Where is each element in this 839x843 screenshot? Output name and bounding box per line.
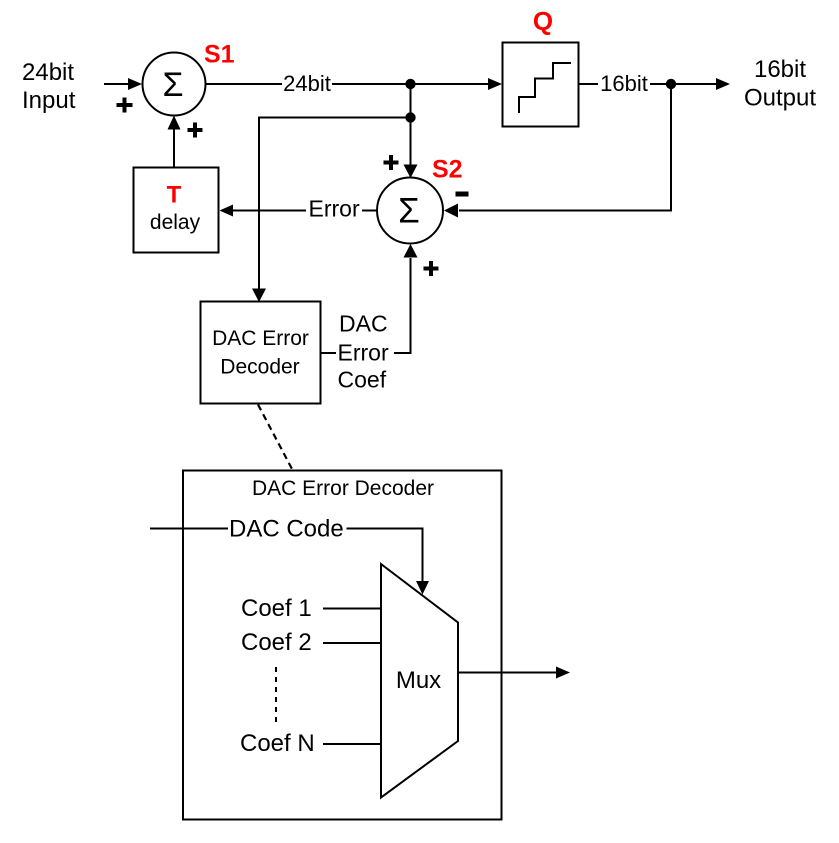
detail box DAC Error Decoder	[183, 471, 502, 820]
svg-text:DAC Error: DAC Error	[212, 327, 309, 350]
svg-text:16bit: 16bit	[600, 71, 648, 96]
junction node B	[405, 112, 415, 122]
svg-text:Coef N: Coef N	[240, 730, 315, 757]
svg-text:Error: Error	[338, 340, 389, 366]
junction node C	[666, 79, 676, 89]
output arrow	[671, 78, 730, 90]
svg-text:DAC Code: DAC Code	[229, 516, 344, 543]
delay box T	[134, 168, 219, 253]
svg-text:Input: Input	[22, 87, 76, 114]
svg-text:Coef 1: Coef 1	[241, 595, 312, 622]
svg-text:Error: Error	[309, 196, 360, 222]
Coef N input	[240, 730, 381, 757]
plus at S1 bottom input	[188, 123, 203, 138]
wire node B left and down to DAC Error Decoder	[252, 118, 411, 303]
wire decoder output to S2 bottom	[321, 244, 418, 353]
wire S2 to delay (Error)	[220, 205, 378, 217]
label DAC Error Coef	[338, 311, 389, 393]
staircase symbol	[519, 63, 571, 113]
summing node S1	[143, 53, 206, 116]
svg-text:Σ: Σ	[398, 192, 420, 231]
wire node A down to S2 top	[404, 84, 418, 178]
svg-text:delay: delay	[150, 211, 201, 234]
svg-text:S1: S1	[204, 41, 235, 69]
Coef 2 input	[241, 629, 381, 656]
svg-text:Coef 2: Coef 2	[241, 629, 312, 656]
svg-text:DAC Error Decoder: DAC Error Decoder	[252, 477, 434, 500]
summing node S2	[377, 178, 443, 244]
plus sign at S1 left input	[117, 98, 133, 113]
svg-text:Decoder: Decoder	[220, 356, 299, 379]
svg-text:S2: S2	[432, 156, 463, 184]
wire delay up to S1 bottom	[168, 116, 181, 168]
svg-text:Q: Q	[533, 6, 553, 36]
Coef 1 input	[241, 595, 381, 622]
plus at S2 top input	[384, 155, 399, 170]
minus at S2 right input	[456, 192, 469, 197]
DAC Error Decoder block	[201, 302, 321, 404]
junction node A	[405, 79, 415, 89]
svg-text:Mux: Mux	[396, 667, 441, 694]
quantizer Q box	[503, 43, 579, 127]
svg-text:24bit: 24bit	[22, 59, 74, 86]
vertical ellipsis dashed	[275, 667, 277, 726]
svg-text:T: T	[167, 182, 182, 209]
wire output feedback from node C into S2 right	[444, 84, 671, 218]
svg-text:Σ: Σ	[162, 66, 183, 104]
wire Q to output	[579, 83, 667, 85]
mux output arrow	[458, 667, 570, 679]
wire DAC Code	[150, 529, 429, 595]
node label "24bit Input"	[22, 59, 76, 114]
svg-text:Output: Output	[744, 85, 816, 112]
svg-text:Coef: Coef	[338, 367, 387, 393]
svg-text:24bit: 24bit	[283, 71, 331, 96]
wire S1 to quantizer Q	[206, 78, 503, 90]
mux trapezoid	[381, 564, 458, 798]
plus at S2 bottom input	[424, 261, 439, 276]
svg-text:16bit: 16bit	[754, 56, 806, 83]
dashed link decoder block to detail box	[258, 405, 292, 470]
wire input arrow into S1	[104, 78, 142, 90]
svg-text:DAC: DAC	[339, 311, 388, 337]
node label "16bit Output"	[744, 56, 816, 112]
